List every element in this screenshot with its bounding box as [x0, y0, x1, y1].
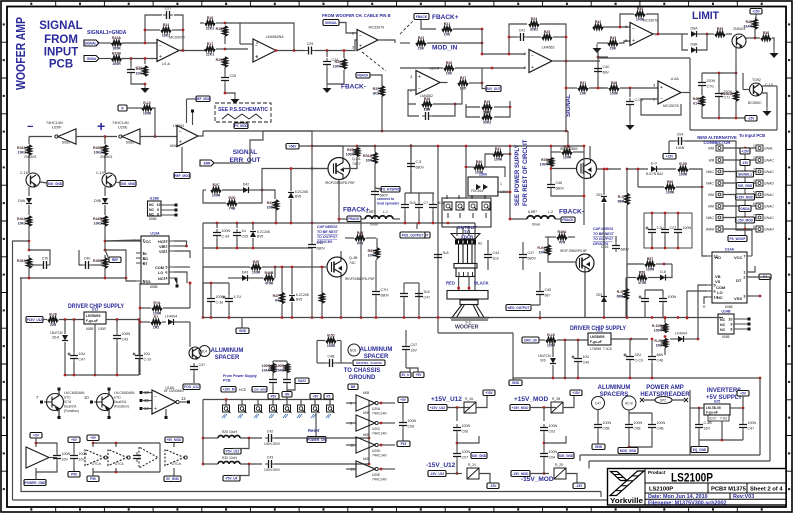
junction	[465, 145, 468, 148]
wire stub pin 8	[329, 400, 331, 406]
wire	[718, 100, 720, 119]
svg-text:FROM WOOFER CH. CABLE PIN B: FROM WOOFER CH. CABLE PIN B	[322, 13, 391, 18]
svg-text:6KB: 6KB	[363, 433, 370, 437]
junction	[651, 338, 654, 341]
svg-text:10U: 10U	[144, 352, 151, 356]
port GNDA column	[739, 206, 751, 212]
ferrite bead R_2A	[464, 402, 476, 413]
wire connector row 3	[723, 171, 756, 173]
wire	[485, 154, 493, 167]
svg-text:16V: 16V	[79, 458, 86, 462]
svg-text:ZD-8: ZD-8	[52, 336, 59, 340]
junction	[539, 317, 542, 320]
port SIG_OUT	[486, 86, 501, 92]
svg-text:PCB: PCB	[49, 59, 73, 71]
wire	[343, 157, 357, 169]
svg-text:P15V_U12: P15V_U12	[27, 318, 43, 322]
wire	[225, 23, 240, 44]
wire	[405, 353, 407, 368]
junction	[326, 49, 329, 52]
svg-text:WAM: WAM	[706, 228, 714, 232]
resistor R12	[142, 101, 152, 115]
wire	[698, 408, 700, 421]
svg-text:100N: 100N	[408, 419, 417, 423]
junction	[115, 442, 118, 445]
resistor R45B	[93, 258, 107, 268]
wire rail 248	[203, 247, 312, 249]
svg-text:R26: R26	[446, 61, 452, 65]
svg-text:R21: R21	[444, 22, 450, 26]
wire	[122, 58, 157, 60]
capacitor C7J	[715, 90, 732, 100]
svg-text:U?C/x: U?C/x	[172, 462, 182, 466]
svg-text:68R: 68R	[618, 199, 625, 203]
junction	[202, 463, 205, 466]
inverter U20C 74HC14N	[356, 415, 378, 431]
resistor R49B	[355, 231, 365, 245]
svg-text:CAP NEEDS: CAP NEEDS	[317, 225, 338, 229]
wire	[327, 70, 344, 84]
wire	[597, 168, 621, 170]
wire relay to woofer	[474, 223, 476, 291]
wire	[469, 82, 482, 84]
transistor U19:C CA3046	[44, 390, 64, 417]
svg-text:(Function): (Function)	[64, 409, 79, 413]
svg-text:LM4562NA: LM4562NA	[266, 35, 285, 39]
svg-text:ERR: ERR	[204, 162, 211, 166]
svg-text:+5V: +5V	[71, 438, 78, 442]
wire	[702, 196, 707, 256]
wire box bottom	[690, 129, 777, 131]
svg-text:BV5: BV5	[296, 298, 302, 302]
title OUTPUT TO XDCR	[457, 225, 477, 236]
svg-text:100N: 100N	[62, 452, 71, 456]
wire	[375, 298, 377, 317]
svg-text:ALUMINUM: ALUMINUM	[598, 385, 631, 391]
svg-text:C43: C43	[122, 338, 129, 342]
junction	[677, 212, 680, 215]
svg-text:connect to: connect to	[377, 197, 394, 201]
junction	[274, 266, 277, 269]
junction	[64, 374, 67, 377]
wire	[92, 443, 94, 447]
capacitor C-16	[612, 242, 629, 252]
svg-text:9: 9	[730, 323, 732, 327]
svg-text:10B: 10B	[267, 205, 274, 209]
svg-text:SIG_GND: SIG_GND	[559, 454, 574, 458]
capacitor C4B2	[648, 421, 665, 431]
resistor R2Bb	[540, 158, 553, 167]
wire	[629, 431, 652, 447]
connector J3 pin 4 right	[753, 179, 774, 186]
capacitor C40c	[536, 288, 551, 298]
svg-text:+: +	[531, 65, 534, 71]
wire	[689, 169, 702, 187]
title INVERTERS +5V SUPPLY	[706, 388, 742, 401]
svg-text:LM CM3046N: LM CM3046N	[114, 391, 135, 395]
wire	[742, 73, 744, 90]
wire	[115, 443, 117, 447]
svg-text:D6A: D6A	[691, 27, 699, 31]
diode D42 BA2	[243, 183, 250, 194]
wire stub pin 7	[314, 400, 316, 406]
wire	[203, 190, 226, 203]
port +15V_MOD b	[252, 387, 267, 393]
svg-text:SIG_GND: SIG_GND	[121, 182, 136, 186]
wire	[339, 218, 347, 220]
svg-text:U20C: U20C	[372, 427, 381, 431]
junction	[368, 437, 371, 440]
resistor R15	[151, 315, 161, 329]
wire	[509, 36, 517, 38]
port +15V_MOD column	[736, 194, 755, 200]
connector P4	[270, 405, 278, 413]
wire connector row 7	[723, 217, 756, 219]
wire	[456, 434, 458, 450]
wire	[564, 340, 566, 378]
wire	[620, 87, 641, 89]
wire	[466, 166, 474, 168]
op-amp U3:A	[416, 67, 440, 95]
svg-text:R2D: R2D	[228, 196, 235, 200]
connector J3 pin 1 right	[753, 144, 773, 151]
svg-text:GNAC: GNAC	[764, 170, 774, 174]
wire	[447, 407, 470, 409]
wire	[544, 436, 566, 443]
wire	[551, 151, 561, 153]
svg-text:R22: R22	[418, 36, 424, 40]
wire	[187, 98, 197, 100]
wire	[241, 318, 243, 329]
svg-text:BV5: BV5	[295, 195, 301, 199]
svg-text:From Power Supply: From Power Supply	[223, 374, 257, 378]
svg-text:R30: R30	[476, 160, 482, 164]
wire	[73, 320, 75, 353]
svg-text:FBACK: FBACK	[348, 217, 360, 221]
junction	[144, 42, 147, 45]
svg-text:C47: C47	[595, 402, 601, 406]
wire	[641, 87, 658, 89]
junction	[603, 168, 606, 171]
svg-text:SIG_OUT: SIG_OUT	[487, 87, 501, 91]
junction	[664, 212, 667, 215]
svg-text:LO: LO	[158, 271, 163, 275]
svg-text:C08: C08	[408, 425, 415, 429]
svg-text:Dual/CA: Dual/CA	[64, 405, 77, 409]
wire	[615, 236, 617, 242]
svg-text:SIGNAL1: SIGNAL1	[85, 42, 99, 46]
junction	[718, 117, 721, 120]
svg-text:U10:A: U10:A	[429, 67, 440, 71]
junction	[508, 53, 511, 56]
svg-text:R20 10uH: R20 10uH	[222, 430, 237, 434]
zener ZD8 1N4734A	[62, 335, 68, 341]
port P50 cell3	[87, 476, 99, 482]
svg-text:NC: NC	[720, 323, 726, 327]
resistor R53	[262, 364, 275, 373]
resistor R37	[373, 86, 384, 96]
svg-text:33K2: 33K2	[483, 121, 491, 125]
svg-text:U25: U25	[714, 400, 721, 404]
junction	[115, 471, 118, 474]
svg-text:74HC14N: 74HC14N	[372, 412, 387, 416]
svg-text:POWER_GND: POWER_GND	[25, 481, 47, 485]
svg-text:100N: 100N	[634, 421, 643, 425]
wire Q2 emitter	[762, 93, 767, 107]
junction	[380, 422, 383, 425]
junction	[629, 377, 632, 380]
svg-text:220N: 220N	[707, 79, 716, 83]
svg-text:SIGNAL: SIGNAL	[233, 149, 258, 156]
capacitor C40b	[82, 257, 92, 270]
svg-text:−: −	[531, 53, 534, 59]
svg-text:C06: C06	[462, 430, 469, 434]
wire	[550, 146, 552, 157]
wire	[299, 146, 312, 159]
wire	[418, 193, 420, 201]
svg-text:2N5646: 2N5646	[721, 92, 733, 96]
svg-text:680V: 680V	[528, 257, 537, 261]
svg-text:U12: U12	[596, 329, 603, 333]
svg-text:74HC14N: 74HC14N	[372, 478, 387, 482]
junction	[754, 37, 757, 40]
wire	[272, 386, 274, 400]
wire cells bottom rail	[93, 468, 160, 472]
ground	[231, 95, 240, 104]
svg-text:C-4B: C-4B	[704, 421, 713, 425]
wire box left	[689, 58, 691, 130]
wire	[698, 431, 700, 440]
svg-text:+5V: +5V	[313, 395, 320, 399]
wire	[438, 332, 513, 334]
wire	[573, 151, 584, 153]
wire base	[312, 168, 328, 170]
wire	[203, 266, 250, 268]
zener ZD9 1N4734A	[550, 358, 556, 364]
svg-text:100N: 100N	[748, 421, 757, 425]
resistor R45A	[17, 258, 31, 268]
inductor FB1	[218, 436, 240, 439]
svg-text:90uH: 90uH	[370, 223, 379, 227]
wire	[503, 153, 510, 155]
connector J2 pin 3 left	[706, 169, 723, 175]
wire	[651, 413, 653, 421]
wire collector up	[312, 146, 343, 158]
svg-text:HCE: HCE	[239, 388, 247, 392]
port +5V b	[413, 372, 424, 378]
ground	[626, 121, 635, 130]
wire	[588, 461, 590, 469]
wire	[432, 83, 462, 116]
wire	[391, 402, 395, 404]
svg-text:GNDA: GNDA	[740, 207, 750, 211]
junction	[321, 266, 324, 269]
svg-text:+15V_U12: +15V_U12	[431, 396, 462, 403]
port PS_WOOF	[728, 236, 747, 242]
wire	[374, 164, 376, 188]
wire	[746, 37, 755, 39]
capacitor C47	[68, 352, 86, 362]
wire	[49, 457, 57, 459]
svg-text:10K: 10K	[610, 47, 617, 51]
wire	[421, 20, 436, 30]
svg-text:2: 2	[753, 156, 755, 160]
wire	[236, 239, 238, 248]
wire	[404, 211, 406, 223]
svg-text:68R: 68R	[617, 294, 624, 298]
junction	[577, 339, 580, 342]
wire feedback top	[145, 15, 162, 43]
svg-text:R?A: R?A	[153, 301, 161, 305]
svg-text:-15V_MOD: -15V_MOD	[513, 472, 530, 476]
wire	[510, 218, 527, 220]
svg-text:HO: HO	[158, 240, 164, 244]
svg-text:VCC: VCC	[143, 240, 151, 244]
wire	[677, 236, 679, 248]
title block navy texts	[648, 494, 754, 507]
svg-text:100R: 100R	[112, 47, 121, 51]
capacitor C4e	[519, 251, 536, 261]
port -15V column	[740, 160, 750, 166]
connector P7	[312, 405, 320, 413]
wire	[557, 339, 588, 341]
op-amp U18A output bubble	[176, 400, 179, 403]
wire	[637, 169, 639, 187]
capacitor C-7	[70, 452, 87, 462]
junction	[375, 316, 378, 319]
svg-text:P5: P5	[327, 395, 331, 399]
svg-text:C03: C03	[549, 430, 556, 434]
svg-text:WOOFER AMP: WOOFER AMP	[13, 17, 28, 90]
wire main rail right	[448, 317, 723, 319]
junction	[104, 277, 107, 280]
svg-text:R30: R30	[484, 110, 490, 114]
wire	[403, 283, 405, 290]
wire op-amp U1B output	[378, 40, 395, 43]
wire	[326, 68, 328, 84]
connector J2 pin 4 left	[706, 180, 723, 186]
svg-text:R28: R28	[424, 97, 430, 101]
resistor R25	[542, 30, 552, 39]
wire	[228, 305, 230, 317]
wire	[104, 268, 106, 278]
wire	[512, 333, 514, 380]
wire rail x411	[410, 146, 412, 193]
wire	[315, 40, 357, 51]
wire	[36, 462, 57, 472]
port P5V_U4	[223, 476, 240, 482]
junction	[583, 195, 586, 198]
svg-text:POWER_ON: POWER_ON	[307, 438, 326, 442]
wire rail 375	[65, 374, 139, 376]
svg-text:3L8: 3L8	[443, 251, 449, 255]
svg-text:C04: C04	[677, 133, 684, 137]
svg-text:−: −	[660, 96, 663, 102]
wire chain A	[28, 137, 30, 145]
wire	[189, 283, 191, 308]
svg-text:R35: R35	[717, 27, 723, 31]
junction	[35, 442, 38, 445]
svg-text:13: 13	[350, 467, 355, 472]
capacitor C-9	[133, 452, 141, 462]
wire	[742, 431, 744, 440]
wire	[481, 68, 483, 83]
wire	[476, 396, 487, 408]
svg-text:16V: 16V	[62, 458, 69, 462]
svg-text:LS2100P: LS2100P	[649, 487, 673, 493]
junction	[281, 316, 284, 319]
transistor Q10B 2N5401	[102, 173, 116, 187]
wire	[216, 48, 225, 50]
svg-text:SPACER: SPACER	[364, 354, 389, 360]
resistor R-20	[654, 339, 667, 348]
svg-text:C47: C47	[748, 427, 755, 431]
svg-text:100N 250V: 100N 250V	[264, 442, 281, 446]
svg-text:C7G: C7G	[707, 85, 715, 89]
port +15V e	[570, 390, 582, 396]
svg-text:EQ_GND: EQ_GND	[693, 448, 707, 452]
svg-text:6M: 6M	[351, 385, 356, 389]
wire	[747, 295, 760, 297]
svg-text:SD: SD	[143, 257, 148, 261]
junction	[742, 407, 745, 410]
svg-text:10U: 10U	[79, 352, 86, 356]
svg-text:C-18: C-18	[20, 171, 28, 175]
svg-text:MOD_GND: MOD_GND	[620, 449, 637, 453]
svg-text:GND: GND	[595, 445, 603, 449]
wire	[181, 147, 183, 173]
svg-text:TO BE NEXT: TO BE NEXT	[317, 230, 339, 234]
svg-text:F-go-oF: F-go-oF	[86, 319, 98, 323]
junction	[735, 117, 738, 120]
svg-text:NC: NC	[149, 203, 155, 207]
wire	[143, 408, 152, 410]
resistor R22	[416, 36, 426, 50]
svg-text:12: 12	[181, 396, 186, 401]
wire connector row 4	[723, 182, 756, 184]
svg-text:Filename: M1375V300.sch2002: Filename: M1375V300.sch2002	[648, 500, 727, 506]
wire	[116, 342, 118, 375]
svg-text:100N: 100N	[668, 295, 677, 299]
junction	[491, 67, 494, 70]
svg-text:Sheet 2 of 4: Sheet 2 of 4	[750, 487, 783, 493]
svg-text:10R: 10R	[366, 158, 373, 162]
connector J3 pin 5 right	[753, 191, 774, 198]
svg-text:16V: 16V	[704, 427, 711, 431]
wire input U20E	[346, 468, 356, 470]
wire rail x438	[437, 146, 439, 318]
wire	[143, 392, 152, 394]
svg-text:1U: 1U	[242, 229, 247, 233]
svg-text:100R: 100R	[112, 62, 121, 66]
svg-text:+5V: +5V	[416, 373, 423, 377]
wire rail	[312, 145, 375, 147]
svg-text:100N: 100N	[683, 226, 692, 230]
svg-text:R34: R34	[637, 7, 643, 11]
capacitor C40A	[594, 65, 610, 75]
wire	[140, 307, 151, 309]
junction	[437, 145, 440, 148]
wire R12 branch	[152, 108, 155, 137]
svg-text:RED: RED	[446, 281, 455, 286]
wire	[406, 368, 410, 372]
junction	[677, 316, 680, 319]
svg-text:U14A: U14A	[725, 248, 735, 252]
wire	[336, 362, 341, 364]
wire	[179, 401, 188, 403]
connector P1	[223, 405, 231, 413]
capacitor C-41	[639, 295, 650, 305]
